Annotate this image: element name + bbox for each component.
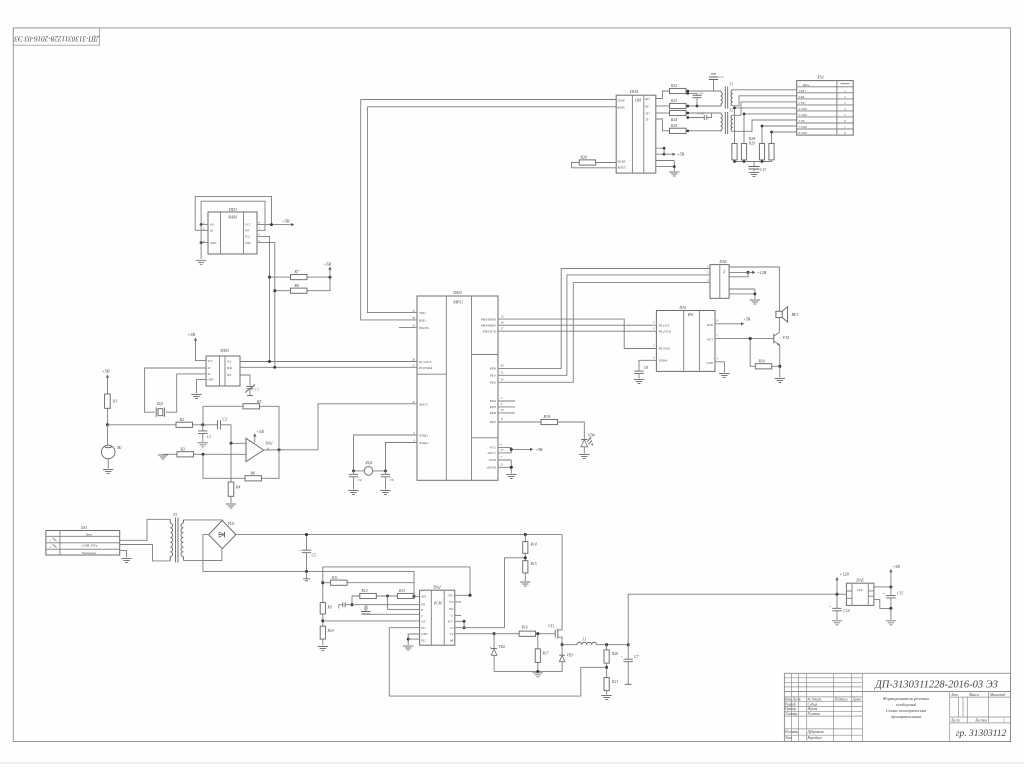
IC DA1 dividers: [684, 311, 700, 372]
arrow +5V DA5: [890, 572, 892, 587]
wire SCL horizontal: [240, 361, 417, 363]
wire XS1 earth: [120, 550, 127, 557]
svg-text:3: 3: [653, 345, 655, 348]
resistor R10: [320, 626, 325, 639]
svg-text:GND: GND: [208, 379, 214, 382]
svg-text:RXDN: RXDN: [617, 106, 625, 109]
svg-text:VDD: VDD: [706, 323, 713, 327]
IC DD4 dividers: [632, 95, 643, 173]
wire R12-R13: [376, 595, 397, 597]
DD2 pin labels: [207, 360, 233, 382]
wire minus rail: [203, 560, 414, 582]
svg-text:PB3/MOSI: PB3/MOSI: [480, 317, 497, 321]
DD4 pin labels: [617, 98, 651, 170]
svg-text:DA1: DA1: [265, 441, 273, 446]
wire GND pin: [201, 242, 208, 244]
svg-text:+5В: +5В: [535, 447, 543, 452]
doc name text: [883, 696, 929, 719]
arrow +5V RAM: [291, 223, 294, 226]
svg-text:R7: R7: [294, 269, 300, 274]
wire R6 to node: [203, 454, 245, 478]
wire GN row: [323, 620, 420, 622]
resistor R1: [105, 394, 111, 408]
svg-text:R20: R20: [611, 652, 618, 656]
svg-text:C5: C5: [312, 554, 317, 558]
capacitor C13: [753, 162, 755, 167]
svg-text:IN2: IN2: [448, 607, 454, 611]
node VCC: [270, 223, 273, 226]
wire T3 sec bottom: [183, 559, 222, 561]
svg-text:ДП-3130311228-2016-03 Э3: ДП-3130311228-2016-03 Э3: [874, 680, 998, 691]
svg-text:SCL: SCL: [245, 235, 251, 239]
IC DA2 dividers: [431, 590, 444, 645]
DD4 right pin3 wire: [656, 112, 670, 114]
wire emitter down: [779, 345, 781, 377]
svg-text:MCBX: MCBX: [617, 160, 626, 163]
capacitor C7: [627, 645, 629, 659]
wire gnd row4: [735, 107, 797, 109]
svg-text:11: 11: [501, 417, 504, 421]
svg-text:R2: R2: [179, 417, 184, 422]
svg-text:DA5: DA5: [855, 578, 863, 583]
wire VD4 down: [583, 447, 585, 454]
XS2 pin numbers: [844, 89, 846, 135]
wire R11 right to AIN: [347, 583, 414, 597]
svg-text:R6: R6: [250, 470, 255, 475]
svg-text:PD6: PD6: [489, 411, 497, 415]
wire PD1: [498, 275, 567, 375]
wire DA5 out: [874, 586, 891, 588]
node GND: [200, 241, 203, 244]
IC DD3 box: [417, 296, 498, 480]
ground DD4: [669, 172, 679, 176]
svg-text:5: 5: [707, 271, 709, 274]
title block grid: [784, 673, 1010, 741]
wire SDA horizontal: [240, 366, 417, 368]
wire Freq stub: [455, 601, 461, 603]
ground rail: [533, 673, 543, 677]
wire R24 to T2: [686, 113, 721, 114]
svg-text:C10: C10: [698, 111, 704, 115]
svg-text:RXD: RXD: [418, 319, 426, 323]
wire bridge minus loop: [203, 535, 222, 561]
svg-text:9: 9: [501, 402, 503, 406]
svg-text:DA1: DA1: [678, 305, 686, 310]
DA2 left pin labels: [420, 594, 428, 642]
svg-text:C1: C1: [255, 388, 259, 392]
svg-text:PB4/MISO: PB4/MISO: [480, 324, 496, 328]
wire IN1 loop: [389, 628, 581, 696]
op-amp DA3: [246, 438, 264, 461]
svg-text:C1: C1: [450, 614, 454, 618]
svg-text:R9: R9: [327, 606, 332, 610]
svg-text:P0.1/EX: P0.1/EX: [658, 323, 671, 327]
transformer T3: [170, 518, 183, 563]
node FB: [350, 603, 353, 606]
node AIN: [412, 595, 415, 598]
bridge VD1: [209, 521, 236, 549]
svg-text:TXDN: TXDN: [618, 100, 625, 103]
svg-text:6: 6: [844, 119, 846, 123]
svg-text:R25: R25: [670, 124, 677, 128]
svg-text:Схема электрическая: Схема электрическая: [886, 708, 926, 713]
svg-text:гр. 31303112: гр. 31303112: [956, 729, 1007, 739]
svg-text:Лит.: Лит.: [950, 693, 959, 697]
wire R7 left: [270, 276, 291, 278]
wire PD4 stub: [498, 400, 515, 402]
IC DD1 inner dividers: [221, 212, 244, 254]
wire T2 sec bottom jog: [732, 120, 796, 131]
svg-text:2: 2: [49, 545, 51, 549]
svg-text:4 GND: 4 GND: [799, 107, 808, 111]
svg-text:31: 31: [501, 371, 504, 375]
svg-text:PCM: PCM: [433, 602, 443, 606]
svg-text:GN: GN: [421, 620, 426, 624]
svg-text:Провер.: Провер.: [784, 707, 797, 711]
ground C13: [749, 173, 759, 177]
svg-text:+: +: [299, 549, 301, 553]
node C6: [384, 469, 387, 472]
wire B pin: [388, 596, 420, 609]
node R11 left: [321, 581, 324, 584]
node SDA: [273, 366, 276, 369]
bottom rail: [494, 671, 562, 673]
C5 stub: [306, 571, 308, 578]
svg-text:B: B: [421, 608, 423, 612]
wire +5V arrow stem: [511, 448, 530, 450]
svg-text:16: 16: [501, 321, 504, 325]
resistor R14: [523, 542, 528, 554]
diode VD3: [561, 645, 563, 656]
wire source to L1: [562, 644, 577, 646]
wire R14-R15: [524, 553, 526, 560]
svg-text:Т.контр.: Т.контр.: [785, 712, 798, 716]
wire L1 right: [597, 644, 629, 646]
svg-text:M1: M1: [116, 446, 122, 450]
node DA2 gnd: [407, 638, 410, 641]
svg-text:1: 1: [844, 89, 846, 93]
capacitor C11: [713, 80, 715, 91]
wire C1 down: [202, 433, 204, 441]
resistor R29b: [769, 144, 774, 160]
svg-text:+: +: [620, 655, 622, 659]
svg-text:принципиальная: принципиальная: [891, 714, 921, 719]
capacitor C6: [385, 471, 387, 474]
node +12V: [747, 271, 750, 274]
wire R26 right: [596, 162, 617, 164]
capacitor C3: [365, 605, 367, 612]
svg-text:R12: R12: [361, 589, 368, 593]
node R25: [686, 129, 689, 132]
node R23: [686, 105, 689, 108]
svg-text:XTAL1: XTAL1: [418, 434, 429, 438]
wire C7 node to DA5: [628, 594, 846, 645]
svg-text:+12В: +12В: [757, 270, 767, 275]
DD1 pin labels: [209, 223, 252, 245]
DA1 left pin labels: [658, 323, 673, 362]
svg-text:VCC: VCC: [208, 360, 214, 363]
wire DA4 +12V pin: [729, 271, 748, 273]
svg-text:Лист: Лист: [950, 719, 960, 723]
svg-text:T1: T1: [729, 83, 733, 87]
svg-text:T2: T2: [729, 109, 733, 113]
wire R5 to node: [203, 406, 243, 425]
IC DA4 divider: [719, 265, 721, 299]
svg-text:SDA: SDA: [245, 241, 251, 245]
wire left vertical to ground: [200, 201, 202, 259]
svg-text:3 TX-: 3 TX-: [799, 119, 806, 123]
node C7: [627, 643, 630, 646]
node emitter: [778, 365, 781, 368]
trimmer cap C16: [240, 375, 250, 386]
arrow +5V R1: [106, 374, 109, 377]
svg-text:SCL: SCL: [227, 360, 232, 363]
svg-text:C9: C9: [699, 92, 703, 96]
svg-text:Масштаб: Масштаб: [989, 693, 1005, 697]
svg-text:WP: WP: [245, 229, 249, 233]
svg-text:C14: C14: [843, 609, 849, 613]
svg-text:Формирователь речевых: Формирователь речевых: [883, 696, 929, 701]
IC DD2 box: [206, 356, 240, 386]
XS1 pins: [49, 539, 51, 550]
svg-text:17: 17: [501, 326, 504, 330]
svg-text:GND: GND: [421, 632, 428, 636]
svg-text:+5В: +5В: [743, 316, 751, 321]
svg-text:7 GND: 7 GND: [799, 125, 808, 129]
svg-text:C: C: [421, 614, 423, 618]
IC DA4 box: [710, 265, 729, 299]
DD3 right pin numbers: [501, 314, 504, 466]
ground XS1: [121, 559, 131, 563]
wire R12 left: [352, 596, 360, 605]
svg-text:VD2: VD2: [499, 645, 506, 649]
resistor R22: [670, 88, 687, 93]
wire gnd row8: [772, 131, 797, 133]
transformer T2: [721, 112, 732, 134]
svg-text:DD0: DD0: [219, 348, 229, 353]
svg-text:№ докум.: № докум.: [807, 698, 822, 702]
ground C6: [380, 491, 390, 495]
svg-text:R17: R17: [542, 652, 550, 656]
svg-text:+: +: [829, 605, 831, 609]
node R6: [201, 453, 204, 456]
svg-text:R11: R11: [331, 576, 338, 580]
wire R30 left stem: [750, 339, 755, 367]
node R4: [229, 442, 232, 445]
svg-text:SDA: SDA: [227, 367, 232, 370]
wire R7 right: [307, 276, 330, 278]
svg-text:DA4: DA4: [718, 259, 726, 264]
svg-text:Воробьев: Воробьев: [808, 736, 823, 740]
svg-text:1: 1: [49, 539, 51, 543]
svg-text:OUT: OUT: [707, 338, 714, 342]
svg-text:PD7: PD7: [489, 420, 497, 424]
wire F2 row: [455, 633, 494, 635]
svg-text:AVCC: AVCC: [487, 451, 497, 455]
wire R30 right: [772, 365, 780, 367]
svg-text:P0.5/DO: P0.5/DO: [658, 347, 671, 351]
node C4: [352, 469, 355, 472]
crystal ZQ1: [156, 408, 164, 417]
svg-text:PD1: PD1: [489, 374, 497, 378]
wire DA5 gnd: [874, 600, 891, 609]
svg-text:L1: L1: [582, 638, 587, 642]
wire gnd row7: [762, 125, 797, 127]
node divider mid: [524, 556, 527, 559]
svg-text:R26: R26: [580, 155, 587, 160]
svg-text:GND: GND: [210, 241, 217, 245]
svg-text:DD4: DD4: [629, 89, 638, 94]
svg-text:F: F: [722, 270, 726, 274]
svg-text:Утв.: Утв.: [785, 736, 793, 740]
svg-text:Изм.Лист: Изм.Лист: [784, 698, 801, 702]
node rail: [536, 670, 539, 673]
ground DA4: [750, 300, 760, 304]
ground DD2: [191, 395, 201, 399]
resistor R13: [397, 593, 414, 598]
node mic: [106, 423, 109, 426]
ground R15: [520, 582, 530, 586]
wire DD2 VCC: [196, 341, 207, 361]
svg-text:VCC: VCC: [489, 446, 496, 450]
DD4 gnd pins: [656, 161, 675, 172]
svg-text:C11: C11: [719, 75, 725, 79]
node R17 top: [536, 632, 539, 635]
node VD2: [493, 632, 496, 635]
ground C15: [886, 621, 896, 625]
svg-text:RX-: RX-: [644, 105, 649, 108]
svg-text:+5В: +5В: [188, 332, 196, 337]
svg-text:5 GND: 5 GND: [799, 113, 808, 117]
svg-text:Цепь: Цепь: [802, 83, 810, 87]
svg-text:F2: F2: [449, 632, 454, 636]
node R7-SCL: [268, 276, 271, 279]
wire R28/29 bottoms: [735, 160, 772, 162]
inductor L1: [577, 642, 597, 644]
wire plus rail: [236, 534, 562, 536]
wire A1: [195, 229, 208, 231]
svg-text:RESET: RESET: [617, 167, 627, 170]
node A0: [200, 223, 203, 226]
svg-text:ЦМ: ЦМ: [634, 98, 642, 102]
svg-text:4: 4: [844, 107, 846, 111]
wire mic top: [107, 425, 109, 446]
svg-text:+: +: [883, 592, 885, 596]
svg-text:10: 10: [501, 408, 504, 412]
svg-text:5: 5: [501, 455, 503, 459]
resistor R2: [176, 422, 193, 427]
ground C4: [348, 491, 358, 495]
wire C1 stub: [455, 615, 461, 617]
svg-text:IN1: IN1: [420, 626, 426, 630]
wire R18 to VD4: [558, 422, 585, 440]
wire DD2 GND: [197, 379, 207, 393]
svg-text:DD3: DD3: [452, 290, 462, 295]
svg-text:Fre: Fre: [448, 600, 454, 604]
svg-text:C1: C1: [207, 435, 211, 439]
resistor R24: [670, 110, 687, 115]
svg-text:сообщений: сообщений: [896, 702, 917, 707]
wire ADC0: [318, 404, 417, 450]
wire DA2 GND: [408, 634, 419, 645]
transistor VT2: [773, 334, 775, 344]
svg-text:R3: R3: [180, 446, 185, 451]
wire T3 sec top: [183, 519, 222, 522]
svg-text:Цепь: Цепь: [85, 533, 93, 537]
wire VCC right: [455, 621, 464, 627]
ground R10: [318, 647, 328, 651]
svg-text:VCC: VCC: [245, 223, 252, 227]
svg-text:AGND: AGND: [486, 466, 497, 470]
resistor R11: [331, 580, 348, 585]
node base: [749, 337, 752, 340]
svg-text:C3: C3: [364, 607, 368, 611]
ground MPU: [506, 475, 516, 479]
svg-text:TX+: TX+: [645, 112, 650, 115]
wire PD2: [498, 283, 573, 383]
svg-text:A0: A0: [209, 223, 214, 227]
svg-text:ADC0: ADC0: [418, 402, 428, 406]
crystal ZQ2 leads: [354, 470, 386, 472]
wire R3 to noninv: [194, 453, 247, 455]
svg-text:PB5/SCK: PB5/SCK: [482, 329, 497, 333]
wire XS1 line1: [120, 519, 171, 540]
svg-text:PC0/SDA: PC0/SDA: [418, 366, 433, 370]
wire speaker to collector: [778, 318, 780, 332]
node R20-R21: [605, 666, 608, 669]
svg-text:X2: X2: [207, 373, 212, 376]
svg-text:C2: C2: [450, 626, 454, 630]
wire R16 to gate: [536, 633, 556, 635]
svg-text:ZQ1: ZQ1: [157, 402, 164, 406]
node R20: [605, 643, 608, 646]
wire PD0: [498, 269, 561, 369]
svg-text:R24: R24: [670, 118, 677, 122]
wire PB5: [498, 330, 656, 332]
svg-text:R14: R14: [530, 543, 537, 547]
svg-text:AB: AB: [449, 639, 454, 643]
DA2 right pin labels: [448, 594, 454, 643]
node C1: [201, 423, 204, 426]
bracket cap: [343, 602, 345, 607]
svg-text:PD2: PD2: [489, 381, 497, 385]
wire DA1 VDD +5V: [715, 323, 742, 325]
svg-text:ДП-3130311228-2016-03 Э3: ДП-3130311228-2016-03 Э3: [14, 35, 99, 43]
wire to R16: [494, 633, 519, 635]
svg-text:21: 21: [501, 463, 504, 467]
wire PD0 to DA4: [561, 268, 710, 270]
node SCL: [268, 360, 271, 363]
ground mic: [103, 470, 113, 474]
svg-text:Дата: Дата: [852, 698, 862, 702]
wire SDA down bus: [257, 243, 275, 368]
svg-text:PD4: PD4: [489, 399, 497, 403]
svg-text:Седых: Седых: [808, 702, 818, 706]
wire R10 gnd: [322, 639, 324, 645]
svg-text:X1: X1: [207, 367, 212, 370]
svg-text:2: 2: [653, 321, 655, 324]
svg-text:IN2: IN2: [420, 638, 426, 642]
svg-text:DD1: DD1: [228, 207, 238, 212]
wire GND/AGND: [498, 460, 511, 474]
wire DA1 OUT: [715, 338, 774, 340]
svg-text:Головин: Головин: [807, 712, 820, 716]
ground DA2: [403, 646, 413, 650]
capacitor C4: [353, 471, 355, 474]
svg-text:R30: R30: [758, 360, 765, 364]
resistor R23: [670, 103, 687, 108]
IC DA5 box: [846, 583, 874, 605]
